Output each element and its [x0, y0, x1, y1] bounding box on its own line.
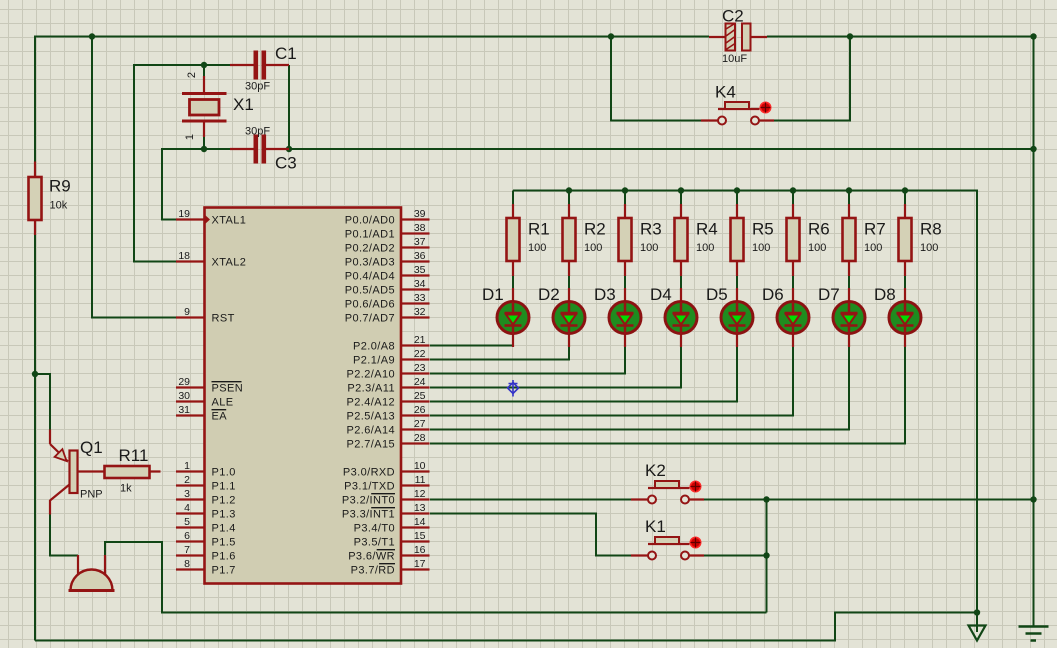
svg-text:2: 2	[184, 474, 190, 486]
svg-text:19: 19	[178, 208, 190, 220]
svg-text:K1: K1	[645, 517, 666, 536]
svg-text:1k: 1k	[120, 483, 132, 495]
svg-text:RST: RST	[212, 313, 235, 325]
svg-text:P1.7: P1.7	[212, 565, 236, 577]
svg-text:D8: D8	[874, 285, 896, 304]
svg-text:R7: R7	[864, 220, 886, 239]
svg-text:R3: R3	[640, 220, 662, 239]
svg-text:P2.6/A14: P2.6/A14	[347, 425, 395, 437]
svg-text:P2.3/A11: P2.3/A11	[347, 383, 395, 395]
svg-text:P2.1/A9: P2.1/A9	[353, 355, 395, 367]
svg-text:100: 100	[640, 242, 658, 254]
svg-text:P0.5/AD5: P0.5/AD5	[345, 285, 395, 297]
svg-text:15: 15	[414, 530, 426, 542]
svg-text:PSEN: PSEN	[212, 383, 244, 395]
svg-text:D1: D1	[482, 285, 504, 304]
svg-text:R1: R1	[528, 220, 550, 239]
svg-text:14: 14	[414, 516, 426, 528]
svg-text:P0.2/AD2: P0.2/AD2	[345, 243, 395, 255]
svg-text:P0.6/AD6: P0.6/AD6	[345, 299, 395, 311]
svg-text:P0.3/AD3: P0.3/AD3	[345, 257, 395, 269]
svg-text:18: 18	[178, 250, 190, 262]
svg-text:33: 33	[414, 292, 426, 304]
svg-text:29: 29	[178, 376, 190, 388]
svg-text:P3.7/RD: P3.7/RD	[351, 565, 395, 577]
svg-text:24: 24	[414, 376, 426, 388]
svg-text:D7: D7	[818, 285, 840, 304]
svg-text:R6: R6	[808, 220, 830, 239]
svg-text:P0.4/AD4: P0.4/AD4	[345, 271, 395, 283]
svg-text:P2.4/A12: P2.4/A12	[347, 397, 395, 409]
svg-text:34: 34	[414, 278, 426, 290]
svg-text:6: 6	[184, 530, 190, 542]
svg-text:K4: K4	[715, 83, 736, 102]
svg-text:P0.0/AD0: P0.0/AD0	[345, 215, 395, 227]
svg-text:31: 31	[178, 404, 190, 416]
svg-text:P1.4: P1.4	[212, 523, 236, 535]
svg-text:7: 7	[184, 544, 190, 556]
svg-text:R5: R5	[752, 220, 774, 239]
svg-text:22: 22	[414, 348, 426, 360]
svg-text:16: 16	[414, 544, 426, 556]
svg-text:P1.0: P1.0	[212, 467, 236, 479]
svg-text:R4: R4	[696, 220, 718, 239]
svg-text:R11: R11	[119, 446, 149, 465]
svg-text:R8: R8	[920, 220, 942, 239]
svg-text:1: 1	[184, 134, 196, 140]
svg-text:3: 3	[184, 488, 190, 500]
svg-text:D2: D2	[538, 285, 560, 304]
svg-text:D5: D5	[706, 285, 728, 304]
svg-text:100: 100	[864, 242, 882, 254]
svg-text:ALE: ALE	[212, 397, 234, 409]
svg-text:5: 5	[184, 516, 190, 528]
svg-text:25: 25	[414, 390, 426, 402]
svg-text:38: 38	[414, 222, 426, 234]
svg-text:C1: C1	[275, 44, 297, 63]
svg-text:P0.7/AD7: P0.7/AD7	[345, 313, 395, 325]
svg-text:P1.3: P1.3	[212, 509, 236, 521]
svg-text:PNP: PNP	[80, 489, 103, 501]
svg-text:P1.6: P1.6	[212, 551, 236, 563]
svg-text:P2.7/A15: P2.7/A15	[347, 439, 395, 451]
svg-text:10uF: 10uF	[722, 53, 747, 65]
svg-text:XTAL2: XTAL2	[212, 257, 247, 269]
svg-text:P1.2: P1.2	[212, 495, 236, 507]
svg-text:4: 4	[184, 502, 190, 514]
svg-text:10: 10	[414, 460, 426, 472]
svg-text:R2: R2	[584, 220, 606, 239]
svg-text:XTAL1: XTAL1	[212, 215, 247, 227]
svg-text:P3.5/T1: P3.5/T1	[354, 537, 395, 549]
svg-text:36: 36	[414, 250, 426, 262]
svg-text:P1.1: P1.1	[212, 481, 236, 493]
svg-text:26: 26	[414, 404, 426, 416]
svg-text:P2.2/A10: P2.2/A10	[347, 369, 395, 381]
svg-text:30pF: 30pF	[245, 81, 270, 93]
svg-text:D6: D6	[762, 285, 784, 304]
svg-text:P3.4/T0: P3.4/T0	[354, 523, 395, 535]
svg-text:2: 2	[186, 72, 198, 78]
svg-text:R9: R9	[49, 177, 71, 196]
svg-text:9: 9	[184, 306, 190, 318]
svg-text:P3.0/RXD: P3.0/RXD	[343, 467, 395, 479]
svg-text:C2: C2	[722, 7, 744, 26]
svg-text:P3.1/TXD: P3.1/TXD	[344, 481, 395, 493]
svg-text:P2.0/A8: P2.0/A8	[353, 341, 395, 353]
svg-text:10k: 10k	[50, 200, 68, 212]
svg-text:30pF: 30pF	[245, 126, 270, 138]
svg-text:11: 11	[415, 474, 426, 486]
svg-text:C3: C3	[275, 154, 297, 173]
svg-text:P0.1/AD1: P0.1/AD1	[345, 229, 395, 241]
svg-text:100: 100	[528, 242, 546, 254]
svg-text:37: 37	[414, 236, 426, 248]
svg-text:12: 12	[414, 488, 426, 500]
svg-text:100: 100	[808, 242, 826, 254]
svg-text:P3.6/WR: P3.6/WR	[348, 551, 395, 563]
svg-text:100: 100	[752, 242, 770, 254]
svg-text:P3.2/INT0: P3.2/INT0	[342, 495, 395, 507]
svg-text:P2.5/A13: P2.5/A13	[347, 411, 395, 423]
svg-text:P3.3/INT1: P3.3/INT1	[342, 509, 395, 521]
svg-text:39: 39	[414, 208, 426, 220]
svg-text:23: 23	[414, 362, 426, 374]
svg-text:100: 100	[584, 242, 602, 254]
svg-text:35: 35	[414, 264, 426, 276]
svg-text:EA: EA	[212, 411, 228, 423]
svg-text:17: 17	[414, 558, 426, 570]
svg-text:X1: X1	[233, 95, 254, 114]
svg-text:Q1: Q1	[80, 438, 103, 457]
svg-text:21: 21	[414, 334, 426, 346]
svg-text:28: 28	[414, 432, 426, 444]
svg-text:D4: D4	[650, 285, 672, 304]
svg-text:1: 1	[184, 460, 190, 472]
svg-text:30: 30	[178, 390, 190, 402]
svg-text:13: 13	[414, 502, 426, 514]
svg-text:D3: D3	[594, 285, 616, 304]
svg-text:27: 27	[414, 418, 426, 430]
svg-text:100: 100	[696, 242, 714, 254]
svg-text:100: 100	[920, 242, 938, 254]
svg-text:32: 32	[414, 306, 426, 318]
svg-text:K2: K2	[645, 461, 666, 480]
svg-text:P1.5: P1.5	[212, 537, 236, 549]
svg-text:8: 8	[184, 558, 190, 570]
